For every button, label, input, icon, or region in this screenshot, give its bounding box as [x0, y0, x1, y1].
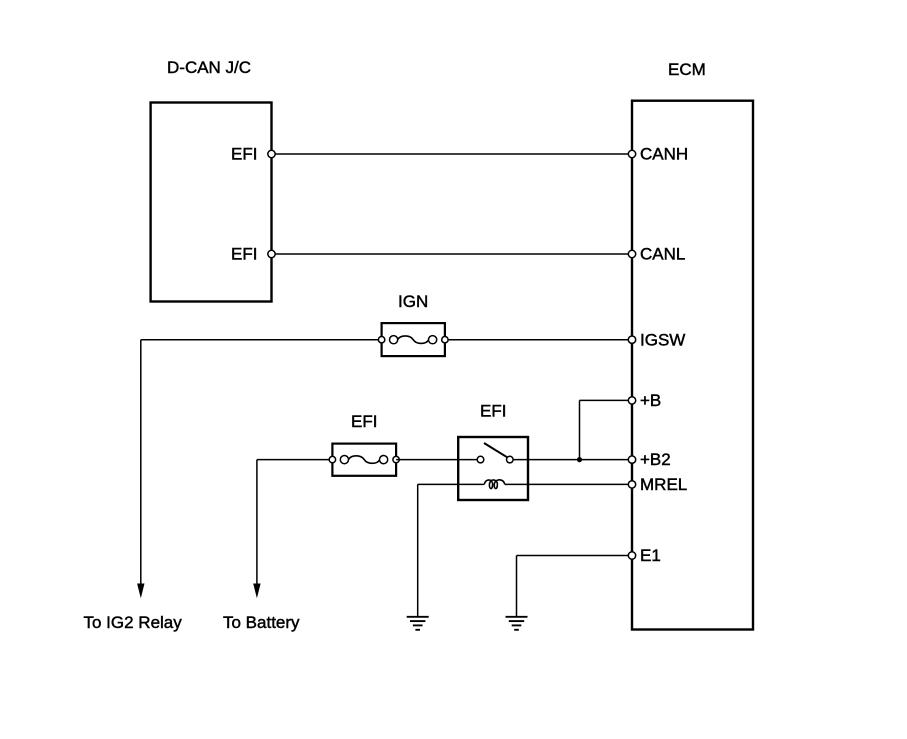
pin EFI 1 on D-CAN J/C — [268, 150, 275, 157]
pin EFI 2 on D-CAN J/C — [268, 250, 275, 257]
svg-text:D-CAN J/C: D-CAN J/C — [167, 58, 251, 77]
wire IGSW left segment — [141, 339, 382, 341]
fuse EFI — [329, 444, 399, 476]
wire coil to ground — [418, 483, 485, 485]
wire relay to +B2 pin — [513, 459, 633, 461]
pin +B2 — [628, 456, 635, 463]
fuse IGN — [378, 323, 448, 356]
pin E1 — [628, 552, 635, 559]
wire coil to MREL pin — [505, 483, 632, 485]
wire ground B vertical — [516, 556, 518, 617]
pin CANH — [628, 150, 635, 157]
ECM box U1 — [632, 101, 753, 630]
svg-text:EFI: EFI — [351, 412, 377, 431]
svg-text:EFI: EFI — [231, 245, 257, 264]
svg-text:CANL: CANL — [640, 245, 685, 264]
arrow to battery — [253, 584, 260, 599]
pin MREL — [628, 481, 635, 488]
junction node at +B branch — [577, 457, 582, 462]
wire CANL net — [272, 253, 633, 255]
wire fuse to relay — [396, 459, 478, 461]
svg-text:CANH: CANH — [640, 145, 688, 164]
svg-text:EFI: EFI — [480, 402, 506, 421]
wire +B branch vertical — [579, 400, 581, 459]
svg-text:IGSW: IGSW — [640, 331, 685, 350]
relay coil L1 — [484, 480, 504, 489]
svg-text:+B: +B — [640, 391, 661, 410]
wire to IG2 relay vertical — [140, 340, 142, 585]
pin +B — [628, 397, 635, 404]
pin CANL — [628, 250, 635, 257]
svg-text:E1: E1 — [640, 546, 661, 565]
wire to battery vertical — [256, 460, 258, 585]
relay EFI K1 — [458, 437, 528, 500]
wire E1 horizontal — [517, 555, 633, 557]
wire CANH net — [272, 153, 633, 155]
wire +B branch horizontal — [580, 399, 633, 401]
svg-text:To Battery: To Battery — [223, 613, 300, 632]
svg-text:MREL: MREL — [640, 475, 687, 494]
wire battery to EFI fuse — [257, 459, 333, 461]
svg-text:IGN: IGN — [398, 292, 428, 311]
svg-text:+B2: +B2 — [640, 450, 671, 469]
svg-text:EFI: EFI — [231, 145, 257, 164]
wire IGSW right segment — [445, 339, 632, 341]
svg-text:ECM: ECM — [668, 60, 706, 79]
wire ground A vertical — [417, 484, 419, 616]
junction connector box D-CAN J/C — [151, 103, 272, 302]
ground A — [407, 617, 429, 630]
svg-text:To IG2 Relay: To IG2 Relay — [84, 613, 183, 632]
arrow to IG2 relay — [137, 584, 144, 599]
ground B — [506, 617, 528, 630]
pin IGSW — [628, 336, 635, 343]
